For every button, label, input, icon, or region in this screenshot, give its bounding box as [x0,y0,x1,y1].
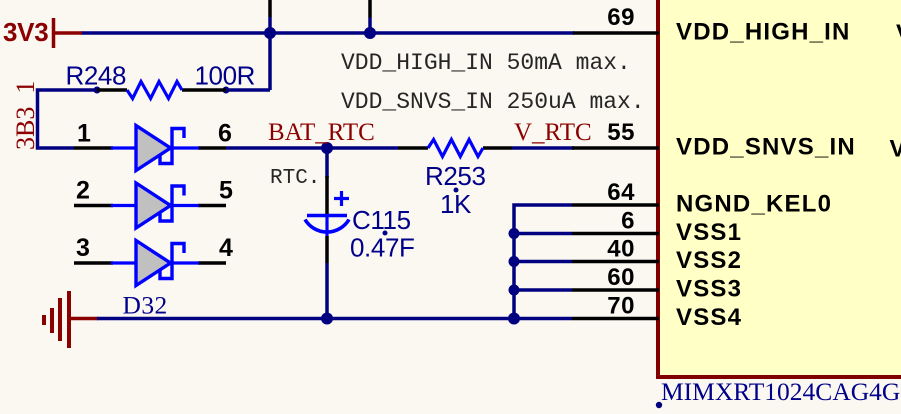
wire to pin 6 [514,232,572,236]
svg-text:70: 70 [607,293,635,320]
resistor R253 [398,140,512,220]
junction at 514,318.5 [508,313,520,325]
svg-text:VDD_HIGH_IN 50mA max.: VDD_HIGH_IN 50mA max. [341,50,631,76]
junction at 514,233.5 [509,228,520,239]
svg-text:RTC.: RTC. [270,167,320,190]
svg-text:VSS2: VSS2 [676,247,742,274]
pin 70 VSS4 [572,293,742,332]
wire top stub B [368,18,372,34]
svg-text:5: 5 [219,177,233,205]
svg-text:VD: VD [890,136,901,163]
wire R248 left branch [38,90,98,148]
svg-text:V_RTC: V_RTC [514,119,592,146]
wire 3V3 rail navy [81,31,574,35]
svg-text:VSS3: VSS3 [676,276,742,303]
svg-text:6: 6 [621,208,635,235]
pin 64 NGND_KEL0 [572,179,832,218]
wire to pin 40 [514,260,572,264]
pin 40 VSS2 [572,236,742,275]
svg-text:VDD_SNVS_IN 250uA max.: VDD_SNVS_IN 250uA max. [341,89,645,115]
diode D32 unit 1-6 [74,120,232,171]
IC U1 MIMXRT1024 body [658,0,901,377]
junction at 514,290 [509,285,520,296]
junction at 270,33 [264,27,276,39]
wire VSS bus vertical [514,205,572,319]
ground symbol [44,291,98,348]
resistor R248 [66,61,256,99]
svg-text:D32: D32 [123,291,168,320]
junction at 326,148 [321,142,333,154]
svg-text:60: 60 [607,264,635,291]
svg-text:C115: C115 [352,205,411,235]
pin-end dot [94,87,101,94]
svg-text:3: 3 [76,234,90,262]
diode D32 unit 2-5 [74,177,233,229]
svg-text:2: 2 [76,177,90,205]
svg-text:BAT_RTC: BAT_RTC [268,119,375,146]
junction at 514,261.5 [509,256,520,267]
wire ground net [97,317,572,321]
svg-text:4: 4 [219,234,233,262]
svg-text:64: 64 [607,179,635,206]
svg-text:40: 40 [607,236,635,263]
pin stub A black [268,0,272,17]
svg-text:55: 55 [607,119,635,146]
svg-text:3B3_1: 3B3_1 [11,81,40,150]
diode D32 unit 3-4 [74,234,233,286]
pin 55 VDD_SNVS_IN [572,119,856,161]
svg-text:MIMXRT1024CAG4G: MIMXRT1024CAG4G [661,377,900,406]
power port 3V3 [3,17,82,48]
svg-text:6: 6 [218,120,232,148]
wire V_RTC net [512,146,574,150]
wire top stub A [268,17,272,90]
pin-end dot [223,87,230,94]
pin 6 VSS1 [572,208,742,247]
svg-text:100R: 100R [195,61,256,91]
svg-text:NGND_KEL0: NGND_KEL0 [676,191,832,218]
svg-text:VD: VD [896,20,901,47]
pin stub B black [368,0,372,18]
capacitor C115 [305,148,415,319]
svg-text:R253: R253 [425,161,486,191]
junction at 370,33 [364,27,376,39]
pin 69 VDD_HIGH_IN [573,4,851,46]
svg-text:3V3: 3V3 [3,17,48,47]
anchor dot [656,402,662,408]
wire R248 right branch [226,88,270,92]
svg-text:VSS4: VSS4 [676,304,742,331]
junction at 326,318.5 [321,313,333,325]
wire BAT_RTC net [226,146,398,150]
svg-text:1K: 1K [440,189,472,219]
svg-text:VSS1: VSS1 [676,219,742,246]
svg-text:VDD_SNVS_IN: VDD_SNVS_IN [676,134,856,161]
svg-text:0.47F: 0.47F [350,233,415,263]
svg-text:69: 69 [607,4,635,31]
svg-text:1: 1 [77,120,91,148]
wire to pin 60 [514,288,572,292]
svg-text:VDD_HIGH_IN: VDD_HIGH_IN [676,19,851,46]
svg-text:R248: R248 [66,61,127,91]
pin 60 VSS3 [572,264,742,303]
